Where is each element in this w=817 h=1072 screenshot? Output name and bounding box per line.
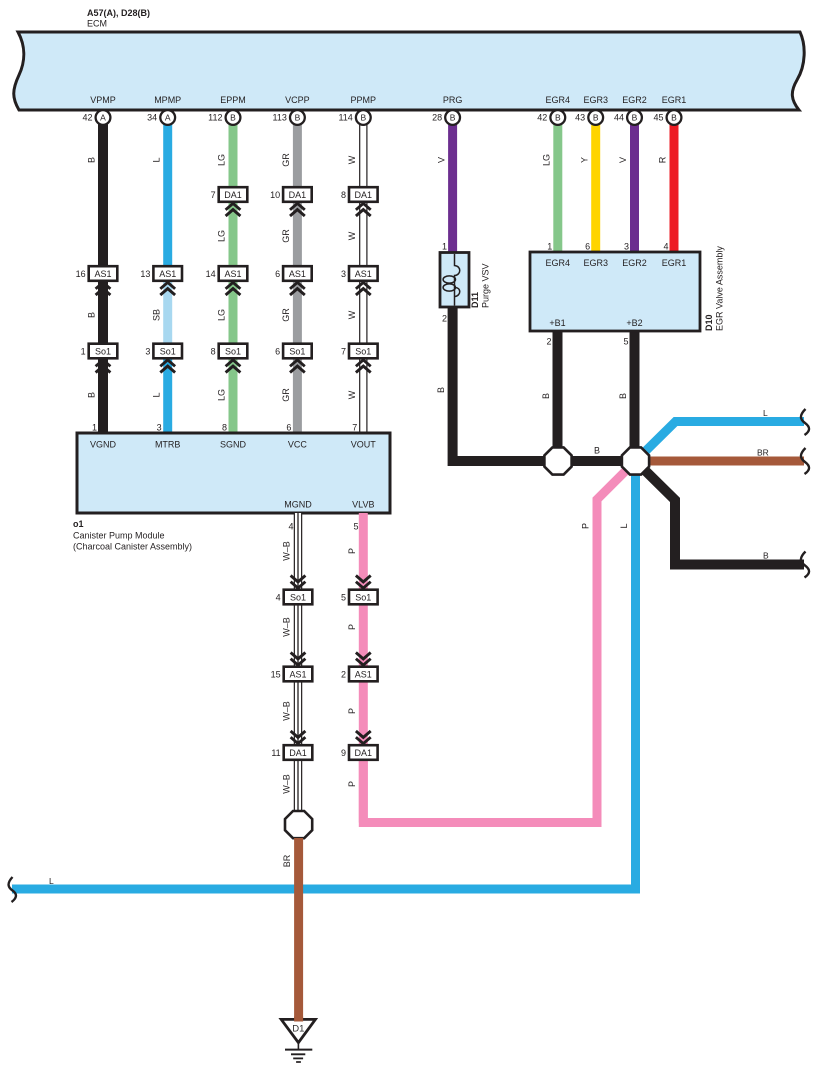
svg-text:PRG: PRG — [443, 95, 463, 105]
svg-text:+B2: +B2 — [626, 318, 642, 328]
svg-text:EGR3: EGR3 — [583, 95, 608, 105]
svg-text:AS1: AS1 — [289, 669, 306, 679]
wire colour label R upper — [658, 156, 668, 163]
junction So1 7 — [341, 344, 378, 373]
ECM block — [14, 32, 804, 110]
ECM pin 42(A) VPMP — [82, 110, 110, 125]
junction So1 6 — [275, 344, 312, 373]
wire BR overlap at ground — [294, 1017, 303, 1022]
svg-text:13: 13 — [140, 269, 150, 279]
wire MTRB L lower segment — [163, 351, 172, 433]
svg-text:P: P — [347, 548, 357, 554]
D10 pin numbers top — [547, 242, 668, 252]
svg-text:EGR4: EGR4 — [546, 95, 571, 105]
svg-text:7: 7 — [211, 190, 216, 200]
junction AS1 15 (W-B chain) — [271, 653, 313, 682]
svg-text:EGR1: EGR1 — [662, 95, 687, 105]
svg-text:AS1: AS1 — [224, 269, 241, 279]
ECM pin name EGR4 — [546, 95, 571, 105]
ground D1 — [281, 1019, 315, 1062]
svg-text:AS1: AS1 — [159, 269, 176, 279]
ECM pin name EGR1 — [662, 95, 687, 105]
svg-text:+B1: +B1 — [549, 318, 565, 328]
wire colour label L upper — [151, 157, 161, 162]
Canister pin labels top — [90, 440, 376, 450]
svg-text:10: 10 — [270, 190, 280, 200]
svg-text:B: B — [541, 393, 551, 399]
svg-text:GR: GR — [281, 229, 291, 243]
wire EGR3 Y (yellow) — [591, 124, 600, 253]
ECM pin 45(B) EGR1 — [653, 110, 681, 125]
junction AS1 16 — [76, 266, 118, 295]
wire colour label W upper — [347, 155, 357, 164]
svg-text:PPMP: PPMP — [351, 95, 377, 105]
svg-text:6: 6 — [286, 423, 291, 433]
svg-text:B: B — [593, 113, 599, 123]
wire MTRB SB segment — [163, 274, 172, 352]
junction AS1 14 — [206, 266, 248, 295]
svg-text:1: 1 — [547, 242, 552, 252]
svg-text:Canister Pump Module: Canister Pump Module — [73, 531, 165, 541]
junction So1 3 — [145, 344, 182, 373]
svg-text:A57(A), D28(B): A57(A), D28(B) — [87, 8, 150, 18]
wire colour label P y551 — [347, 548, 357, 554]
ECM pin 114(B) PPMP — [338, 110, 370, 125]
wire colour label Y upper — [579, 157, 589, 163]
svg-text:LG: LG — [217, 230, 227, 242]
Canister caption o1 — [73, 519, 192, 552]
svg-text:DA1: DA1 — [224, 190, 242, 200]
break symbol B right — [801, 552, 809, 578]
wire colour label V upper — [618, 157, 628, 163]
ECM pin 43(B) EGR3 — [575, 110, 603, 125]
svg-text:28: 28 — [432, 113, 442, 123]
svg-text:2: 2 — [442, 314, 447, 324]
D10 pin labels +B1 +B2 — [549, 318, 642, 328]
D11 coil symbol — [443, 254, 460, 306]
D10 pin numbers bottom — [546, 337, 628, 347]
svg-text:EGR4: EGR4 — [546, 258, 571, 268]
D11 label — [470, 263, 491, 308]
svg-text:112: 112 — [208, 113, 222, 123]
wire colour label B row4 — [87, 392, 97, 398]
svg-text:B: B — [450, 113, 456, 123]
wire colour label GR upper — [281, 153, 291, 167]
svg-text:V: V — [436, 157, 446, 163]
svg-text:1: 1 — [92, 423, 97, 433]
wire colour label GR row2 — [281, 229, 291, 243]
wire colour label SB row3 — [151, 309, 161, 321]
svg-text:LG: LG — [217, 154, 227, 166]
svg-text:B: B — [295, 113, 301, 123]
svg-text:ECM: ECM — [87, 19, 107, 29]
wire MGND W-B vertical — [294, 513, 303, 812]
svg-text:D10: D10 — [704, 314, 714, 331]
svg-text:EGR2: EGR2 — [622, 258, 647, 268]
svg-text:LG: LG — [542, 154, 552, 166]
wire D10 +B1 B to splice E1 — [553, 331, 563, 461]
junction DA1 8 — [341, 187, 378, 216]
ECM pin name MPMP — [154, 95, 181, 105]
wire colour label B D11 chain — [436, 387, 446, 393]
splice node E1 — [544, 447, 571, 474]
svg-text:5: 5 — [353, 522, 358, 532]
svg-text:So1: So1 — [160, 346, 176, 356]
ECM pin 34(A) MPMP — [147, 110, 175, 125]
svg-text:AS1: AS1 — [355, 669, 372, 679]
break symbol L left — [9, 877, 16, 902]
svg-text:AS1: AS1 — [94, 269, 111, 279]
svg-text:B: B — [87, 157, 97, 163]
svg-text:7: 7 — [341, 346, 346, 356]
wire colour label GR row4 — [281, 388, 291, 402]
wire colour label P y711 — [347, 708, 357, 714]
junction AS1 3 — [341, 266, 378, 295]
svg-text:SB: SB — [151, 309, 161, 321]
wire colour label W-B y784 — [282, 774, 292, 794]
wire colour label LG row2 — [217, 230, 227, 242]
wire colour label P long pink — [581, 523, 591, 529]
svg-text:8: 8 — [211, 346, 216, 356]
svg-text:MPMP: MPMP — [154, 95, 181, 105]
Canister pin labels bottom — [284, 500, 374, 510]
svg-text:3: 3 — [157, 423, 162, 433]
svg-text:MGND: MGND — [284, 500, 312, 510]
svg-text:GR: GR — [281, 388, 291, 402]
Purge VSV D11 box — [440, 253, 469, 308]
wire colour label W row2 — [347, 231, 357, 240]
svg-text:VCC: VCC — [288, 440, 308, 450]
svg-text:VPMP: VPMP — [90, 95, 116, 105]
svg-text:P: P — [581, 523, 591, 529]
svg-text:So1: So1 — [289, 346, 305, 356]
svg-text:15: 15 — [271, 669, 281, 679]
wire colour label LG row3 — [217, 309, 227, 321]
wire colour label P y627 — [347, 624, 357, 630]
Canister pin numbers top — [92, 423, 357, 433]
wire MTRB L (blue) upper segment — [163, 124, 172, 274]
junction So1 4 (W-B chain) — [276, 576, 313, 605]
svg-text:V: V — [618, 157, 628, 163]
svg-text:R: R — [658, 156, 668, 163]
D11 pin 2 number — [442, 314, 447, 324]
svg-text:B: B — [632, 113, 638, 123]
svg-text:W–B: W–B — [282, 774, 292, 794]
wire VLVB P vertical — [359, 513, 368, 823]
svg-text:L: L — [49, 876, 54, 886]
wire P splice E2 to VLVB chain — [363, 461, 635, 823]
svg-text:D11: D11 — [470, 292, 480, 308]
svg-text:11: 11 — [271, 748, 280, 758]
Canister pin numbers bottom — [288, 522, 358, 532]
junction DA1 11 (W-B chain) — [271, 731, 312, 760]
wire EPPM LG (green) vertical — [229, 124, 238, 433]
svg-text:W–B: W–B — [282, 701, 292, 721]
wire B splice E2 to right break — [636, 461, 805, 565]
svg-text:P: P — [347, 781, 357, 787]
svg-text:P: P — [347, 624, 357, 630]
svg-text:So1: So1 — [225, 346, 241, 356]
svg-text:EPPM: EPPM — [220, 95, 246, 105]
svg-text:6: 6 — [275, 269, 280, 279]
svg-text:B: B — [436, 387, 446, 393]
junction AS1 6 — [275, 266, 312, 295]
ECM pin 113(B) VCPP — [273, 110, 305, 125]
svg-text:113: 113 — [273, 113, 287, 123]
svg-text:o1: o1 — [73, 519, 84, 529]
svg-text:4: 4 — [276, 592, 281, 602]
svg-text:So1: So1 — [95, 346, 111, 356]
svg-text:5: 5 — [341, 592, 346, 602]
wire colour label P y784 — [347, 781, 357, 787]
svg-text:43: 43 — [575, 113, 585, 123]
svg-text:B: B — [671, 113, 677, 123]
svg-text:2: 2 — [341, 669, 346, 679]
svg-text:DA1: DA1 — [289, 748, 307, 758]
svg-text:7: 7 — [352, 423, 357, 433]
wire L splice E2 to right break — [636, 422, 805, 462]
wire colour label V upper — [436, 157, 446, 163]
EGR Valve Assembly D10 box — [530, 252, 700, 331]
junction So1 5 (P chain) — [341, 576, 378, 605]
svg-text:1: 1 — [81, 346, 86, 356]
svg-text:4: 4 — [288, 522, 293, 532]
svg-text:16: 16 — [76, 269, 86, 279]
svg-text:EGR Valve Assembly: EGR Valve Assembly — [715, 246, 725, 331]
svg-text:8: 8 — [222, 423, 227, 433]
svg-text:P: P — [347, 708, 357, 714]
wire colour label B upper — [87, 157, 97, 163]
svg-text:(Charcoal Canister Assembly): (Charcoal Canister Assembly) — [73, 542, 192, 552]
wire D10 +B2 B to splice E2 — [630, 331, 640, 461]
ECM pin 28(B) PRG — [432, 110, 460, 125]
wire VCPP GR (gray) vertical — [293, 124, 302, 433]
wire colour label GR row3 — [281, 308, 291, 322]
svg-text:DA1: DA1 — [355, 190, 373, 200]
svg-text:GR: GR — [281, 153, 291, 167]
svg-text:VGND: VGND — [90, 440, 117, 450]
wire D11 pin2 B to splice E1 — [453, 307, 558, 461]
svg-text:B: B — [230, 113, 236, 123]
ECM caption A57(A) D28(B) — [87, 8, 150, 29]
wire colour label W row4 — [347, 390, 357, 399]
svg-text:LG: LG — [217, 389, 227, 401]
svg-text:34: 34 — [147, 113, 157, 123]
D11 pin 1 number — [442, 242, 447, 252]
svg-text:So1: So1 — [290, 592, 306, 602]
wire colour label B +B2 chain — [618, 393, 628, 399]
svg-text:So1: So1 — [355, 346, 371, 356]
svg-text:6: 6 — [585, 242, 590, 252]
svg-text:44: 44 — [614, 113, 624, 123]
svg-text:BR: BR — [757, 448, 769, 458]
svg-text:EGR2: EGR2 — [622, 95, 647, 105]
svg-text:3: 3 — [145, 346, 150, 356]
svg-text:VCPP: VCPP — [285, 95, 310, 105]
wire colour label W-B y551 — [282, 541, 292, 561]
svg-text:A: A — [165, 113, 171, 123]
svg-text:L: L — [763, 408, 768, 418]
svg-text:Purge VSV: Purge VSV — [481, 263, 491, 308]
svg-text:D1: D1 — [292, 1024, 304, 1035]
svg-text:6: 6 — [275, 346, 280, 356]
svg-text:9: 9 — [341, 748, 346, 758]
break symbol L right — [801, 409, 809, 435]
svg-text:EGR3: EGR3 — [583, 258, 608, 268]
wire colour label W-B y711 — [282, 701, 292, 721]
wire PPMP W (white) vertical — [359, 124, 367, 433]
wire L splice E2 down to left edge — [12, 461, 636, 889]
svg-text:8: 8 — [341, 190, 346, 200]
svg-text:114: 114 — [338, 113, 352, 123]
svg-text:3: 3 — [341, 269, 346, 279]
svg-text:AS1: AS1 — [355, 269, 372, 279]
svg-text:B: B — [594, 446, 600, 456]
svg-text:VLVB: VLVB — [352, 500, 374, 510]
svg-text:1: 1 — [442, 242, 447, 252]
wire colour label LG upper — [217, 154, 227, 166]
svg-text:B: B — [87, 312, 97, 318]
Canister Pump Module box — [77, 433, 390, 513]
svg-text:BR: BR — [282, 854, 292, 867]
svg-text:L: L — [619, 523, 629, 528]
ECM pin name PRG — [443, 95, 463, 105]
svg-text:42: 42 — [537, 113, 547, 123]
junction DA1 9 (P chain) — [341, 731, 378, 760]
svg-text:DA1: DA1 — [289, 190, 307, 200]
wire colour label BR — [282, 854, 292, 867]
svg-text:DA1: DA1 — [355, 748, 373, 758]
wire EGR1 R (red) — [670, 124, 679, 253]
junction AS1 13 — [140, 266, 182, 295]
ECM pin 44(B) EGR2 — [614, 110, 642, 125]
svg-text:W: W — [347, 390, 357, 399]
D10 label — [704, 246, 725, 331]
wire colour label W-B y627 — [282, 617, 292, 637]
label L bottom wire — [49, 876, 54, 886]
junction DA1 7 — [211, 187, 248, 216]
svg-text:AS1: AS1 — [289, 269, 306, 279]
svg-text:W–B: W–B — [282, 617, 292, 637]
svg-text:B: B — [618, 393, 628, 399]
svg-text:W: W — [347, 231, 357, 240]
splice node below DA1 — [285, 811, 312, 838]
svg-text:VOUT: VOUT — [351, 440, 377, 450]
svg-text:14: 14 — [206, 269, 216, 279]
wire EGR2 V (violet) — [630, 124, 639, 253]
svg-text:4: 4 — [663, 242, 668, 252]
junction AS1 2 (P chain) — [341, 653, 378, 682]
svg-text:SGND: SGND — [220, 440, 247, 450]
svg-text:B: B — [360, 113, 366, 123]
svg-text:5: 5 — [623, 337, 628, 347]
svg-text:GR: GR — [281, 308, 291, 322]
wire colour label L row4 — [151, 392, 161, 397]
svg-text:Y: Y — [579, 157, 589, 163]
wire BR splice E2 to right break — [636, 457, 805, 466]
wire colour label W row3 — [347, 310, 357, 319]
svg-text:EGR1: EGR1 — [662, 258, 687, 268]
break symbol BR right — [801, 448, 809, 474]
wire colour label LG row4 — [217, 389, 227, 401]
wire VPMP B (black) vertical — [98, 124, 108, 433]
svg-text:L: L — [151, 392, 161, 397]
splice node E2 — [622, 447, 649, 474]
ECM pin name EPPM — [220, 95, 246, 105]
wire BR splice to ground — [294, 838, 303, 1022]
label BR right wire — [757, 448, 769, 458]
ECM pin name PPMP — [351, 95, 377, 105]
junction DA1 10 — [270, 187, 312, 216]
ECM pin name VCPP — [285, 95, 310, 105]
wire B between splices — [558, 456, 636, 466]
svg-text:MTRB: MTRB — [155, 440, 181, 450]
label B right wire — [763, 551, 769, 561]
svg-text:3: 3 — [624, 242, 629, 252]
junction So1 8 — [211, 344, 248, 373]
svg-text:A: A — [100, 113, 106, 123]
label B between splices — [594, 446, 600, 456]
svg-text:B: B — [555, 113, 561, 123]
wire PRG V (violet) — [448, 124, 457, 253]
wire colour label B row3 — [87, 312, 97, 318]
wire colour label L long blue — [619, 523, 629, 528]
junction So1 1 — [81, 344, 118, 373]
ECM pin 42(B) EGR4 — [537, 110, 565, 125]
wire EGR4 LG — [553, 124, 562, 253]
ECM pin name EGR3 — [583, 95, 608, 105]
D10 pin labels EGR4-EGR1 — [546, 258, 687, 268]
wire colour label LG upper — [542, 154, 552, 166]
svg-text:B: B — [87, 392, 97, 398]
svg-text:45: 45 — [653, 113, 663, 123]
wire colour label B +B1 chain — [541, 393, 551, 399]
ECM pin 112(B) EPPM — [208, 110, 240, 125]
svg-text:B: B — [763, 551, 769, 561]
svg-text:2: 2 — [546, 337, 551, 347]
ECM pin name EGR2 — [622, 95, 647, 105]
ECM pin name VPMP — [90, 95, 116, 105]
label L right wire — [763, 408, 768, 418]
svg-text:42: 42 — [82, 113, 92, 123]
svg-text:W–B: W–B — [282, 541, 292, 561]
svg-text:LG: LG — [217, 309, 227, 321]
svg-text:So1: So1 — [355, 592, 371, 602]
svg-text:W: W — [347, 155, 357, 164]
svg-text:L: L — [151, 157, 161, 162]
svg-text:W: W — [347, 310, 357, 319]
